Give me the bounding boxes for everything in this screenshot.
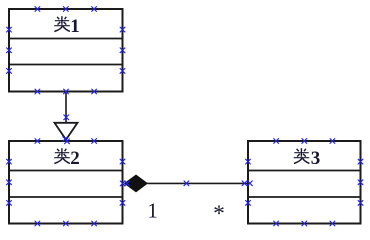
composition diamond at 类2 bbox=[125, 175, 148, 192]
connection points of 类2 bbox=[7, 139, 125, 226]
svg-text:1: 1 bbox=[147, 199, 158, 223]
class name label 类3 bbox=[294, 148, 321, 169]
connection marks on generalization wire bbox=[63, 89, 70, 144]
connection points of 类1 bbox=[7, 7, 125, 94]
svg-text:2: 2 bbox=[70, 148, 80, 169]
multiplicity label * bbox=[213, 201, 225, 227]
generalization wire from 类1 to 类2 bbox=[65, 92, 67, 123]
multiplicity label 1 bbox=[147, 199, 158, 223]
class name label 类1 bbox=[54, 16, 80, 37]
svg-text:*: * bbox=[213, 201, 225, 227]
connection marks on composition wire bbox=[120, 181, 252, 186]
generalization hollow triangle arrowhead bbox=[55, 123, 78, 140]
connection points of 类3 bbox=[246, 139, 363, 226]
svg-text:1: 1 bbox=[70, 16, 80, 37]
class box 类2 bbox=[9, 141, 123, 224]
class box 类3 bbox=[248, 141, 361, 224]
composition wire to 类3 bbox=[147, 182, 248, 184]
svg-text:3: 3 bbox=[311, 148, 321, 169]
class name label 类2 bbox=[54, 148, 80, 169]
class box 类1 bbox=[9, 9, 123, 92]
